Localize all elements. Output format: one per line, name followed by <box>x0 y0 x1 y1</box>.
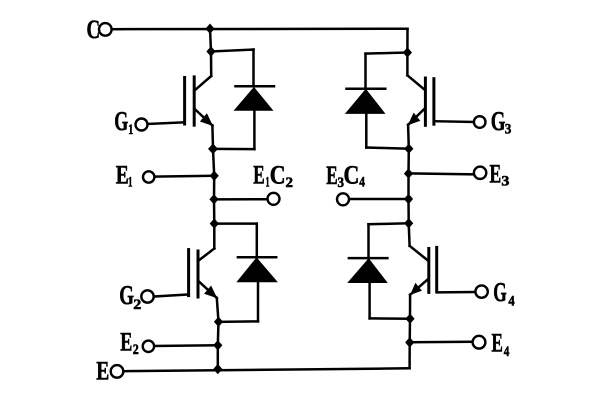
svg-text:4: 4 <box>508 293 515 309</box>
svg-text:4: 4 <box>359 175 365 191</box>
svg-text:1: 1 <box>128 175 133 191</box>
svg-text:C: C <box>344 161 360 190</box>
svg-text:E: E <box>253 161 264 190</box>
svg-text:E: E <box>492 328 503 357</box>
svg-text:G: G <box>114 106 128 136</box>
svg-text:C: C <box>87 15 101 44</box>
svg-text:2: 2 <box>133 297 141 313</box>
svg-text:2: 2 <box>133 342 139 358</box>
svg-text:E: E <box>96 357 109 386</box>
svg-text:3: 3 <box>501 173 509 189</box>
svg-text:E: E <box>120 327 132 356</box>
svg-text:E: E <box>326 161 337 190</box>
svg-text:E: E <box>490 159 502 188</box>
svg-text:1: 1 <box>128 122 133 138</box>
svg-text:2: 2 <box>286 175 294 191</box>
svg-text:G: G <box>493 277 507 307</box>
svg-text:4: 4 <box>504 344 510 360</box>
svg-text:G: G <box>119 280 134 310</box>
svg-text:G: G <box>491 106 506 136</box>
svg-text:3: 3 <box>505 121 512 137</box>
svg-text:C: C <box>270 161 286 190</box>
svg-text:E: E <box>116 160 129 189</box>
